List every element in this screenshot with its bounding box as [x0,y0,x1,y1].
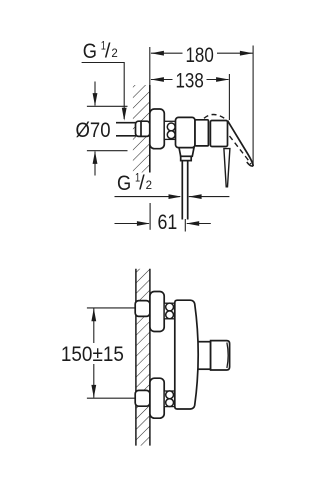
arrow 150 bottom [91,385,96,398]
extension wall (61) [149,203,151,230]
union collar [164,121,175,139]
outlet nipple step2 [181,156,192,160]
svg-text:Ø70: Ø70 [76,118,111,142]
upper escutcheon [150,292,164,332]
upper wall nut [135,301,150,317]
lever dashed raised position [204,114,227,119]
extension line 138 right [228,74,230,120]
text G 1/2 top [83,39,118,64]
hose pipe lines [181,161,183,220]
lever blade down [224,149,230,187]
dimension line 61 [115,223,149,225]
upper union collar [164,303,175,319]
wall surface line (bottom) [149,269,151,446]
arrow 138 right [216,77,229,82]
dimension line 180 [151,52,183,54]
arrow dia70 upper [93,93,98,106]
svg-text:/: / [139,173,145,195]
extension line 180 right [252,46,254,166]
arrow G1/2 bottom right [189,194,202,199]
lever dashed inner edge [230,136,251,164]
svg-text:2: 2 [146,178,153,192]
arrow 138 left [151,77,164,82]
svg-text:G: G [117,171,131,195]
outlet step1 (drawn under body) [193,342,211,370]
svg-text:180: 180 [186,43,214,67]
svg-text:/: / [105,41,111,63]
lower wall nut [135,390,150,406]
collar ring [195,120,208,146]
svg-text:2: 2 [111,46,118,60]
svg-text:138: 138 [176,69,204,93]
dimension line 150 [93,308,95,343]
wall surface line (top view) [149,85,151,173]
cartridge cap [210,121,227,147]
lower union collar [164,391,175,407]
dim lines diameter 70 [87,105,128,107]
leader G1/2 bottom [115,196,181,198]
outlet nipple step1 [179,148,194,157]
union nut in wall [136,121,150,136]
text G 1/2 bottom [117,171,152,196]
arrow 180 right [240,51,253,56]
tick upper connection [87,307,137,309]
mixer body (top view) [176,117,196,147]
knurl circle lower [167,131,175,139]
escutcheon (top view) [150,109,165,149]
leader G1/2 top [82,63,125,120]
wall hatching (top view) [133,85,150,173]
arrow G1/2 bottom left [169,194,182,199]
lower knurl circles [166,391,174,399]
arrow 61 right [186,221,199,226]
svg-text:61: 61 [158,210,178,234]
upper knurl circles [166,303,174,311]
arrow 150 top [91,308,96,321]
wall hatching (bottom) [136,269,150,446]
lever tip [247,162,253,166]
mixer body (bottom view) [175,300,198,409]
arrow 61 left [137,221,150,226]
dimension line 138 [151,79,173,81]
arrow 180 left [151,51,164,56]
arrow G1/2 top leader [122,108,127,121]
svg-text:G: G [83,39,97,63]
extension line wall surface (top) [149,47,151,85]
wall back line [135,269,137,446]
svg-text:150±15: 150±15 [61,342,124,366]
knurl circle upper [167,123,175,131]
arrow dia70 lower [93,151,98,164]
outlet step2 [211,341,230,370]
lower escutcheon [150,378,164,418]
tick lower connection [87,397,137,399]
extension outlet centre [184,219,186,232]
lever solid outline [228,121,254,166]
supply pipe (top view) [116,122,136,124]
outlet chamfer arc [227,343,228,369]
